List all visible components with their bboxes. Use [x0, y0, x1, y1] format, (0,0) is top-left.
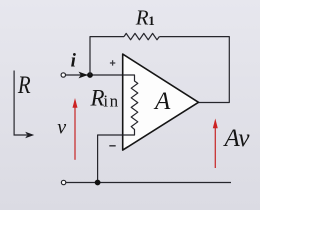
voltage arrow v — [74, 106, 76, 160]
svg-text:i: i — [71, 51, 77, 72]
op-amp A triangle — [123, 54, 199, 150]
wire feedback left vertical — [90, 37, 124, 75]
svg-text:R: R — [90, 85, 105, 110]
current arrowhead — [79, 72, 89, 79]
ground rail wire — [66, 182, 231, 184]
svg-text:A: A — [153, 88, 171, 115]
wire feedback right vertical to output — [159, 37, 229, 103]
svg-text:R: R — [135, 5, 149, 29]
wire inverting input to ground rail — [98, 135, 123, 183]
ground terminal circle — [61, 180, 65, 184]
node junction input — [87, 72, 93, 78]
wire input to op-amp — [66, 74, 123, 76]
output voltage arrow Av — [214, 126, 216, 168]
resistor R1 — [124, 33, 159, 39]
input terminal circle — [61, 73, 65, 77]
svg-text:in: in — [103, 91, 119, 110]
input resistance bracket arrowhead — [25, 132, 34, 139]
svg-text:Av: Av — [223, 125, 251, 152]
minus sign — [109, 145, 115, 147]
svg-text:1: 1 — [148, 13, 155, 28]
input resistance bracket — [14, 71, 27, 136]
plus sign — [110, 60, 115, 65]
resistor Rin — [123, 75, 138, 135]
node junction ground — [95, 180, 101, 186]
svg-text:R: R — [17, 72, 31, 99]
svg-text:v: v — [57, 117, 66, 139]
